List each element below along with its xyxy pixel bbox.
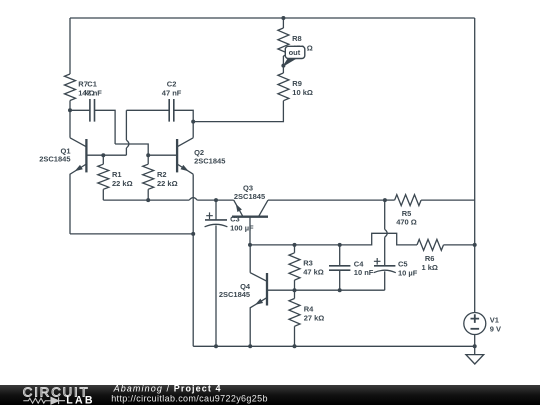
svg-text:Q2: Q2 [194,148,204,157]
svg-text:2SC1845: 2SC1845 [219,290,250,299]
capacitor C4 [329,266,350,270]
capacitor C3 [205,212,228,226]
svg-text:R6: R6 [425,254,435,263]
wire C5 bottom lead [384,271,386,290]
wire Q2 emitter vertical [192,174,194,346]
node C4 bottom junction [338,288,342,292]
svg-text:R8: R8 [292,34,302,43]
voltage source V1 [464,313,486,335]
wire C2 right to Q2 collector node [174,110,193,121]
svg-text:470 Ω: 470 Ω [396,217,417,226]
node C3 bottom junction [214,344,218,348]
svg-text:R2: R2 [157,170,167,179]
node out junction [281,64,285,68]
wire C1 to netA corner [95,110,116,144]
wire Q3 collector to R5 node [268,199,385,201]
ground [466,346,484,364]
wire C5 top lead upper [384,200,386,229]
node Q4 emitter junction [248,344,252,348]
wire V1 bottom lead [474,335,476,347]
resistor R2 [143,164,154,189]
svg-text:Abaminog / Project 4: Abaminog / Project 4 [113,383,222,393]
node ground junction [473,344,477,348]
wire R1 top lead [102,155,104,164]
wire emitter rail right [197,199,234,201]
node R3 top junction [293,243,297,247]
node Q1 collector junction [68,108,72,112]
transistor Q3 [232,200,268,245]
wire R5 left lead [385,199,395,201]
wire netB vertical upper [125,110,127,140]
svg-text:LAB: LAB [66,394,94,405]
wire R6 right lead [444,244,475,246]
svg-text:10 kΩ: 10 kΩ [292,88,313,97]
node R2 top junction [146,153,150,157]
resistor R3 [289,253,300,280]
wire right rail [474,18,476,313]
resistor R5 [395,195,422,206]
wire Q4 base row [267,289,385,291]
wire R9 top lead [282,66,284,73]
svg-text:out: out [289,48,301,57]
node R4 bottom junction [293,344,297,348]
wire netB vertical lower to Q1 base row [125,148,127,155]
wire left rail segment [69,18,71,74]
wire R2 top lead [147,155,149,164]
svg-text:10 nF: 10 nF [354,268,374,277]
wire R5 node to right rail lead [421,199,475,201]
svg-text:27 kΩ: 27 kΩ [304,314,325,323]
svg-text:22 kΩ: 22 kΩ [157,179,178,188]
wire C3 top lead [215,200,217,220]
wire C3 bottom lead [215,225,217,346]
resistor R4 [289,299,300,327]
svg-text:R3: R3 [303,259,313,268]
wire C1 left lead [70,109,90,111]
svg-text:1 kΩ: 1 kΩ [421,263,437,272]
wire R8 top lead [282,18,284,28]
node C4 top junction [338,243,342,247]
svg-text:10 µF: 10 µF [398,269,418,278]
wire C5 hop over detour [385,229,388,237]
node R4 top junction [293,288,297,292]
svg-text:100 µF: 100 µF [230,223,254,232]
wire R1 bottom lead [102,189,104,200]
node Q1-Q2 emitter junction [191,232,195,236]
wire Q2 base [148,154,177,156]
node R5 left junction [383,198,387,202]
wire emitter rail left [103,199,189,201]
wire Q1 base row [86,154,126,156]
svg-text:2SC1845: 2SC1845 [234,192,265,201]
logo diode [51,397,65,404]
node Q2 collector junction [191,120,195,124]
wire C5 top lead lower [384,237,386,266]
svg-text:2SC1845: 2SC1845 [39,154,70,163]
transistor Q4 [250,245,267,346]
wire top rail [70,17,475,19]
wire R8 bottom lead [282,56,284,66]
wire hop over Q2 emitter [189,198,197,201]
transistor Q2 [177,122,193,175]
wire netB hop over netA [126,140,128,148]
wire Q1 emitter horizontal [70,233,193,235]
wire R2 bottom lead [147,189,149,200]
transistor Q1 [70,110,86,234]
svg-text:R4: R4 [304,304,314,313]
node C3 top junction [214,198,218,202]
wire Q2 collector to R9 column [193,101,283,122]
svg-text:2SC1845: 2SC1845 [194,157,225,166]
wire C4 top lead [339,245,341,266]
capacitor C1 [90,99,95,122]
resistor R6 [417,239,444,250]
node flag out [284,46,305,66]
wire R7 bottom lead [69,101,71,111]
svg-text:C5: C5 [398,260,408,269]
node Q3 base junction [248,243,252,247]
svg-text:47 nF: 47 nF [162,88,182,97]
svg-text:V1: V1 [490,316,499,325]
wire base row to detour [250,233,417,245]
svg-text:22 kΩ: 22 kΩ [112,179,133,188]
svg-text:C2: C2 [167,80,177,89]
node R2 bottom junction [146,198,150,202]
wire R4 top lead [294,290,296,298]
svg-text:Q3: Q3 [243,183,253,192]
wire netA horizontal to Q2 base drop [115,144,148,155]
resistor R7 [65,74,76,101]
capacitor C5 [374,258,396,273]
wire R3 bottom lead [294,280,296,290]
node R6 right junction [473,243,477,247]
wire C4 bottom lead [339,270,341,290]
capacitor C2 [169,99,174,122]
svg-text:9 V: 9 V [490,324,501,333]
svg-text:C1: C1 [87,80,97,89]
svg-text:47 nF: 47 nF [82,88,102,97]
resistor R1 [98,164,109,189]
svg-text:R1: R1 [112,170,122,179]
wire netB C2 row [126,109,169,111]
wire R4 bottom lead [294,326,296,346]
svg-text:R9: R9 [292,79,302,88]
resistor R9 [278,73,289,101]
node R8 top junction [281,16,285,20]
wire R3 top lead [294,245,296,253]
logo resistor zigzag [23,398,51,403]
wire bottom rail [193,345,475,347]
resistor R8 [278,28,289,56]
svg-text:http://circuitlab.com/cau9722y: http://circuitlab.com/cau9722y6g25b [111,393,268,403]
svg-text:47 kΩ: 47 kΩ [303,267,324,276]
node R1 top junction [101,153,105,157]
